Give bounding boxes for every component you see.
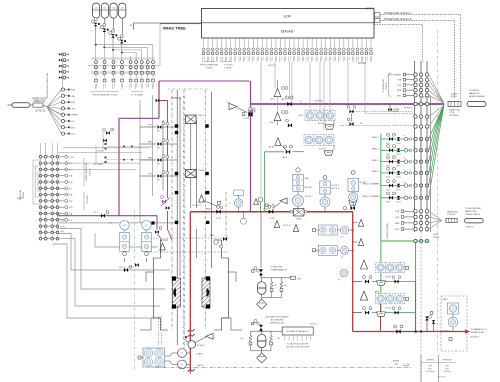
- svg-text:HPB: HPB: [397, 95, 402, 97]
- svg-text:NOTE 2: NOTE 2: [268, 65, 277, 67]
- svg-text:1-1/2": 1-1/2": [216, 218, 222, 220]
- svg-text:COMPENSATOR: COMPENSATOR: [270, 269, 287, 272]
- svg-text:PLATE: PLATE: [225, 66, 232, 69]
- svg-text:TYPE W: TYPE W: [447, 214, 455, 216]
- svg-text:VXT 5: VXT 5: [128, 267, 135, 269]
- svg-text:500 barg: 500 barg: [443, 370, 450, 373]
- svg-text:TO WIRELINE: TO WIRELINE: [383, 78, 385, 93]
- svg-text:ACTUATORS: ACTUATORS: [271, 319, 284, 322]
- svg-text:TYPE: TYPE: [449, 112, 455, 114]
- svg-text:MANIFOLD: MANIFOLD: [469, 92, 481, 95]
- svg-text:UM 4B: UM 4B: [268, 147, 275, 149]
- svg-text:FROM UMBILICAL: FROM UMBILICAL: [85, 162, 88, 181]
- svg-text:MCL: MCL: [71, 134, 76, 136]
- svg-text:GAE: GAE: [305, 177, 310, 180]
- svg-text:LP RETURN: LP RETURN: [270, 267, 282, 269]
- svg-text:MCB: MCB: [396, 154, 401, 156]
- svg-text:PIPELINE: PIPELINE: [442, 360, 452, 362]
- svg-text:SPARE: SPARE: [71, 114, 79, 117]
- svg-text:(SPRING IDLE): (SPRING IDLE): [270, 323, 285, 325]
- svg-text:GCB: GCB: [298, 115, 303, 117]
- svg-text:MCB: MCB: [396, 202, 401, 204]
- svg-text:LPA: LPA: [397, 79, 401, 82]
- svg-text:MQ: MQ: [61, 231, 65, 233]
- svg-text:THPd: THPd: [198, 170, 204, 172]
- svg-text:LPB: LPB: [71, 108, 76, 110]
- svg-text:NOTE 7: NOTE 7: [360, 182, 368, 184]
- svg-text:SCSSV: SCSSV: [197, 345, 205, 347]
- svg-text:NOTE 8: NOTE 8: [315, 101, 324, 103]
- svg-text:MCB: MCB: [396, 165, 401, 167]
- svg-text:GB 6: GB 6: [386, 202, 390, 204]
- svg-text:WELL 2: WELL 2: [372, 149, 380, 151]
- svg-text:/SATELLITE: /SATELLITE: [465, 210, 477, 213]
- svg-text:UMBILICAL: UMBILICAL: [33, 100, 46, 103]
- svg-text:NOTE 7: NOTE 7: [385, 277, 393, 279]
- svg-text:HPA: HPA: [69, 181, 74, 184]
- svg-text:NOTE 7: NOTE 7: [332, 185, 340, 187]
- svg-text:FROM WIRELINE PLATE: FROM WIRELINE PLATE: [93, 94, 119, 97]
- svg-text:THPu: THPu: [198, 115, 204, 117]
- svg-text:UM 1: UM 1: [270, 99, 276, 101]
- svg-text:HPA: HPA: [69, 194, 74, 197]
- svg-text:WELL 1: WELL 1: [372, 137, 380, 139]
- svg-text:SCSSV: SCSSV: [243, 118, 250, 120]
- svg-text:NOTE 2: NOTE 2: [358, 62, 367, 65]
- svg-text:SEM B (SEM A): SEM B (SEM A): [469, 95, 485, 98]
- svg-text:GB-GA: GB-GA: [345, 103, 352, 106]
- svg-text:VXT: VXT: [61, 221, 66, 223]
- svg-text:VXT 5: VXT 5: [119, 267, 126, 269]
- svg-text:NOTE 7: NOTE 7: [319, 149, 327, 151]
- svg-text:UM 2: UM 2: [270, 122, 276, 124]
- svg-text:ACTUATOR FOR VALVE: ACTUATOR FOR VALVE: [265, 316, 289, 319]
- svg-text:FROM SCMMB: FROM SCMMB: [387, 223, 389, 239]
- svg-text:LPB: LPB: [69, 201, 73, 203]
- svg-text:JOINT/: JOINT/: [451, 94, 458, 96]
- svg-text:500 barg: 500 barg: [426, 370, 433, 373]
- svg-text:DHPT1: DHPT1: [197, 354, 205, 356]
- svg-text:WELL 3: WELL 3: [372, 160, 380, 162]
- svg-text:NOTE 12: NOTE 12: [471, 337, 481, 339]
- svg-text:NOTE 7: NOTE 7: [17, 198, 25, 200]
- svg-text:TREES ONE FL: TREES ONE FL: [465, 214, 481, 216]
- svg-text:NOTE 6: NOTE 6: [404, 108, 413, 110]
- svg-text:GB 5: GB 5: [386, 189, 390, 191]
- svg-text:JUMPER: JUMPER: [426, 360, 435, 362]
- svg-text:TO SCMMB: TO SCMMB: [131, 95, 143, 97]
- svg-text:DHPT2: DHPT2: [197, 365, 205, 367]
- svg-text:TO VALVE ACTUATORS: TO VALVE ACTUATORS: [286, 343, 309, 346]
- svg-text:UW: UW: [129, 25, 132, 27]
- svg-text:LNR: LNR: [297, 279, 302, 281]
- svg-text:LPA: LPA: [71, 95, 76, 98]
- svg-text:NOTE 7: NOTE 7: [385, 308, 393, 310]
- svg-text:1-1/2": 1-1/2": [270, 218, 276, 220]
- svg-text:LPB: LPB: [69, 220, 73, 222]
- svg-text:SEM A/B: SEM A/B: [281, 30, 294, 34]
- svg-text:TO SLED: TO SLED: [223, 65, 233, 67]
- svg-text:NOTE 4: NOTE 4: [332, 188, 340, 190]
- svg-text:UMBILICAL: UMBILICAL: [449, 109, 461, 112]
- svg-text:EXT: EXT: [71, 121, 76, 123]
- svg-text:APBW: APBW: [393, 360, 399, 363]
- svg-text:W2W: W2W: [296, 219, 301, 221]
- svg-text:PLATE: PLATE: [385, 82, 388, 89]
- svg-text:PLATE: PLATE: [433, 236, 440, 239]
- svg-text:MCB: MCB: [396, 143, 401, 145]
- svg-text:GB 4: GB 4: [386, 177, 390, 179]
- svg-text:NOTE 7: NOTE 7: [365, 6, 375, 10]
- svg-text:HPA: HPA: [395, 222, 400, 225]
- svg-text:HPB: HPB: [69, 169, 74, 171]
- svg-text:TO INLINE SLED: TO INLINE SLED: [465, 208, 482, 210]
- svg-text:WELL 6 (SPARE): WELL 6 (SPARE): [362, 195, 379, 198]
- svg-text:TO MANIFOLD /: TO MANIFOLD /: [471, 328, 488, 331]
- svg-text:TO/FROM: TO/FROM: [469, 90, 479, 92]
- svg-text:LP SPARE: LP SPARE: [390, 108, 400, 111]
- svg-text:2": 2": [300, 101, 302, 104]
- svg-text:NOTE 16: NOTE 16: [283, 225, 292, 227]
- svg-text:F101: F101: [445, 368, 449, 370]
- svg-text:HP SPARE: HP SPARE: [94, 163, 104, 166]
- svg-text:XMAS TREE: XMAS TREE: [163, 26, 187, 31]
- svg-text:LPB: LPB: [69, 163, 73, 165]
- svg-text:HPB: HPB: [71, 102, 76, 104]
- svg-text:LPB: LPB: [397, 85, 402, 87]
- svg-text:PGT: PGT: [443, 300, 448, 302]
- svg-text:MTU: MTU: [61, 226, 66, 228]
- svg-text:MCB: MCB: [396, 189, 401, 191]
- svg-text:TO UWH: TO UWH: [87, 195, 89, 204]
- svg-text:NOTE 1: NOTE 1: [310, 324, 318, 326]
- svg-text:MCB: MCB: [396, 177, 401, 179]
- svg-text:LP/HP SPARE: LP/HP SPARE: [388, 74, 402, 77]
- svg-text:MOL: MOL: [71, 127, 77, 129]
- svg-text:VX 1: VX 1: [94, 212, 98, 214]
- svg-text:HYDRAULIC MANIFOLD: HYDRAULIC MANIFOLD: [286, 330, 309, 333]
- svg-text:NOTE 11: NOTE 11: [438, 377, 446, 379]
- svg-text:SCSSV: SCSSV: [97, 151, 104, 153]
- svg-text:HPB: HPB: [69, 207, 74, 209]
- svg-text:METER: METER: [305, 187, 313, 189]
- svg-text:LP/HP: LP/HP: [69, 157, 75, 159]
- svg-text:NOTE 7: NOTE 7: [305, 196, 313, 198]
- svg-text:NOTE 5: NOTE 5: [443, 331, 451, 333]
- svg-text:LPA: LPA: [395, 210, 399, 213]
- svg-text:NOTE 16: NOTE 16: [193, 205, 202, 207]
- svg-text:PLATE: PLATE: [206, 66, 213, 69]
- svg-text:UMBILICAL: UMBILICAL: [447, 211, 459, 214]
- svg-text:SC: SC: [227, 102, 230, 104]
- svg-text:HPA: HPA: [71, 89, 76, 92]
- svg-text:AAV: AAV: [210, 234, 215, 237]
- svg-text:PLUG: PLUG: [451, 96, 457, 98]
- svg-text:INLINE SLED: INLINE SLED: [471, 332, 485, 334]
- svg-text:UM 4: UM 4: [282, 157, 288, 159]
- svg-text:NOTE 9: NOTE 9: [466, 227, 474, 229]
- svg-text:WORKOVER UMBILICAL: WORKOVER UMBILICAL: [46, 72, 49, 98]
- svg-text:HPA: HPA: [397, 89, 402, 92]
- svg-text:WELL 4: WELL 4: [372, 171, 380, 173]
- svg-text:F101: F101: [428, 368, 432, 370]
- svg-text:LPB: LPB: [395, 217, 400, 219]
- svg-text:HPB: HPB: [395, 229, 400, 231]
- svg-text:FROM WIRELINE: FROM WIRELINE: [200, 65, 218, 67]
- svg-text:(SPRING SIDE RETURN): (SPRING SIDE RETURN): [286, 347, 309, 349]
- svg-text:SCM: SCM: [283, 15, 290, 19]
- svg-text:DVS/SDS: DVS/SDS: [449, 115, 459, 117]
- svg-text:PMV: PMV: [206, 209, 211, 211]
- svg-text:SLED: SLED: [433, 234, 439, 236]
- svg-text:UM: UM: [281, 99, 285, 101]
- svg-text:NOTE 15: NOTE 15: [35, 110, 46, 113]
- svg-text:NOTE 6: NOTE 6: [422, 97, 431, 99]
